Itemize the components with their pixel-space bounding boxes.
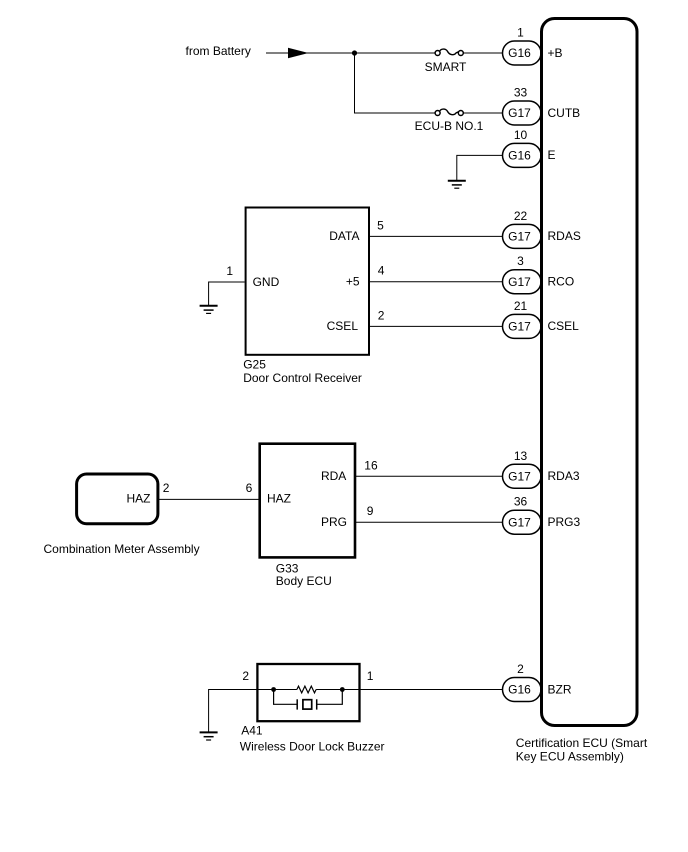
connector G17 pin 3 (RCO)	[503, 254, 575, 294]
box G25 Door Control Receiver	[243, 208, 369, 386]
wire: +5 to G17 pin 3	[369, 281, 503, 283]
box G33 Body ECU	[260, 444, 355, 588]
connector G17 pin 36 (PRG3)	[503, 495, 581, 535]
svg-text:4: 4	[378, 264, 385, 278]
junction: buzzer left node	[271, 687, 276, 692]
connector G16 pin 2 (BZR)	[503, 662, 572, 702]
svg-text:PRG3: PRG3	[548, 515, 581, 529]
svg-text:DATA: DATA	[329, 229, 359, 243]
connector G17 pin 33 (CUTB)	[503, 86, 581, 126]
svg-text:BZR: BZR	[548, 682, 572, 696]
wire: GND to ground	[209, 282, 245, 306]
svg-text:RDA3: RDA3	[548, 469, 580, 483]
svg-text:1: 1	[367, 669, 374, 683]
svg-text:CSEL: CSEL	[548, 319, 580, 333]
svg-text:G25: G25	[243, 358, 266, 372]
svg-text:RDA: RDA	[321, 469, 346, 483]
svg-text:Key ECU Assembly): Key ECU Assembly)	[516, 750, 624, 764]
wire: RDA to G17 pin 13	[355, 475, 503, 477]
svg-text:9: 9	[367, 504, 374, 518]
svg-text:6: 6	[246, 481, 253, 495]
connector G17 pin 22 (RDAS)	[503, 209, 581, 249]
connector G17 pin 21 (CSEL)	[503, 299, 580, 339]
svg-text:3: 3	[517, 254, 524, 268]
svg-text:5: 5	[377, 218, 384, 232]
svg-text:RDAS: RDAS	[548, 229, 581, 243]
svg-text:G16: G16	[508, 46, 531, 60]
svg-text:Door Control Receiver: Door Control Receiver	[243, 371, 362, 385]
arrow: battery flow direction	[288, 48, 309, 59]
fuse ECU-B NO.1	[415, 109, 484, 133]
svg-text:36: 36	[514, 495, 528, 509]
wire: buzzer left to ground	[209, 690, 258, 733]
svg-text:G17: G17	[508, 320, 531, 334]
svg-text:G17: G17	[508, 470, 531, 484]
svg-text:33: 33	[514, 86, 528, 100]
svg-text:+B: +B	[548, 46, 563, 60]
svg-text:G16: G16	[508, 683, 531, 697]
svg-text:from Battery: from Battery	[186, 44, 251, 58]
box Combination Meter Assembly	[44, 474, 200, 556]
wire: through buzzer main path	[257, 689, 297, 691]
connector G17 pin 13 (RDA3)	[503, 449, 580, 489]
wire: DATA to G17 pin 22	[369, 235, 503, 237]
fuse SMART	[425, 49, 467, 74]
svg-text:Body ECU: Body ECU	[276, 574, 332, 588]
svg-text:22: 22	[514, 209, 528, 223]
svg-text:GND: GND	[253, 275, 280, 289]
svg-text:2: 2	[378, 308, 385, 322]
resistor inside A41	[297, 686, 316, 693]
svg-text:21: 21	[514, 299, 528, 313]
connector G16 pin 1 (+B)	[503, 26, 563, 66]
svg-text:1: 1	[517, 26, 524, 40]
svg-text:10: 10	[514, 128, 528, 142]
buzzer element branch	[274, 690, 343, 710]
svg-text:G17: G17	[508, 106, 531, 120]
wire: CSEL to G17 pin 21	[369, 325, 503, 327]
ground: G25 GND	[200, 306, 218, 314]
connector G16 pin 10 (E)	[503, 128, 556, 168]
svg-text:2: 2	[242, 669, 249, 683]
svg-text:2: 2	[163, 481, 170, 495]
ECU U1 Certification ECU (Smart Key ECU Assembly)	[516, 19, 648, 764]
svg-text:CSEL: CSEL	[327, 319, 359, 333]
svg-text:G17: G17	[508, 275, 531, 289]
svg-text:G17: G17	[508, 230, 531, 244]
svg-text:G17: G17	[508, 515, 531, 529]
svg-text:E: E	[548, 148, 556, 162]
wire: fuse ECU-B NO.1 to G17 pin 33	[463, 112, 503, 114]
svg-text:1: 1	[226, 264, 233, 278]
svg-text:PRG: PRG	[321, 515, 347, 529]
svg-text:CUTB: CUTB	[548, 106, 581, 120]
box A41 Wireless Door Lock Buzzer	[240, 664, 385, 754]
svg-text:HAZ: HAZ	[267, 492, 291, 506]
svg-text:13: 13	[514, 449, 528, 463]
svg-text:SMART: SMART	[425, 60, 467, 74]
svg-text:Certification ECU (Smart: Certification ECU (Smart	[516, 736, 648, 750]
svg-text:G16: G16	[508, 149, 531, 163]
junction: battery node	[352, 50, 357, 55]
wire: buzzer to G16 pin 2	[360, 689, 504, 691]
wire: PRG to G17 pin 36	[355, 521, 503, 523]
svg-text:2: 2	[517, 662, 524, 676]
wire: battery feed to fuse SMART	[266, 52, 435, 54]
svg-text:HAZ: HAZ	[127, 492, 151, 506]
wire: E pin to ground	[457, 155, 503, 180]
svg-text:ECU-B NO.1: ECU-B NO.1	[415, 119, 484, 133]
ground: A41 buzzer	[200, 732, 218, 740]
wire: meter HAZ to body ECU HAZ	[158, 498, 259, 500]
wire: fuse SMART to G16 pin 1	[463, 52, 503, 54]
svg-text:Combination Meter Assembly: Combination Meter Assembly	[44, 542, 200, 556]
svg-text:RCO: RCO	[548, 275, 575, 289]
svg-text:Wireless Door Lock Buzzer: Wireless Door Lock Buzzer	[240, 740, 385, 754]
ground: E terminal	[448, 181, 466, 189]
svg-text:16: 16	[364, 458, 378, 472]
svg-text:A41: A41	[241, 723, 263, 737]
junction: buzzer right node	[340, 687, 345, 692]
svg-text:+5: +5	[346, 275, 360, 289]
wire: junction down to CUTB row	[355, 53, 435, 113]
